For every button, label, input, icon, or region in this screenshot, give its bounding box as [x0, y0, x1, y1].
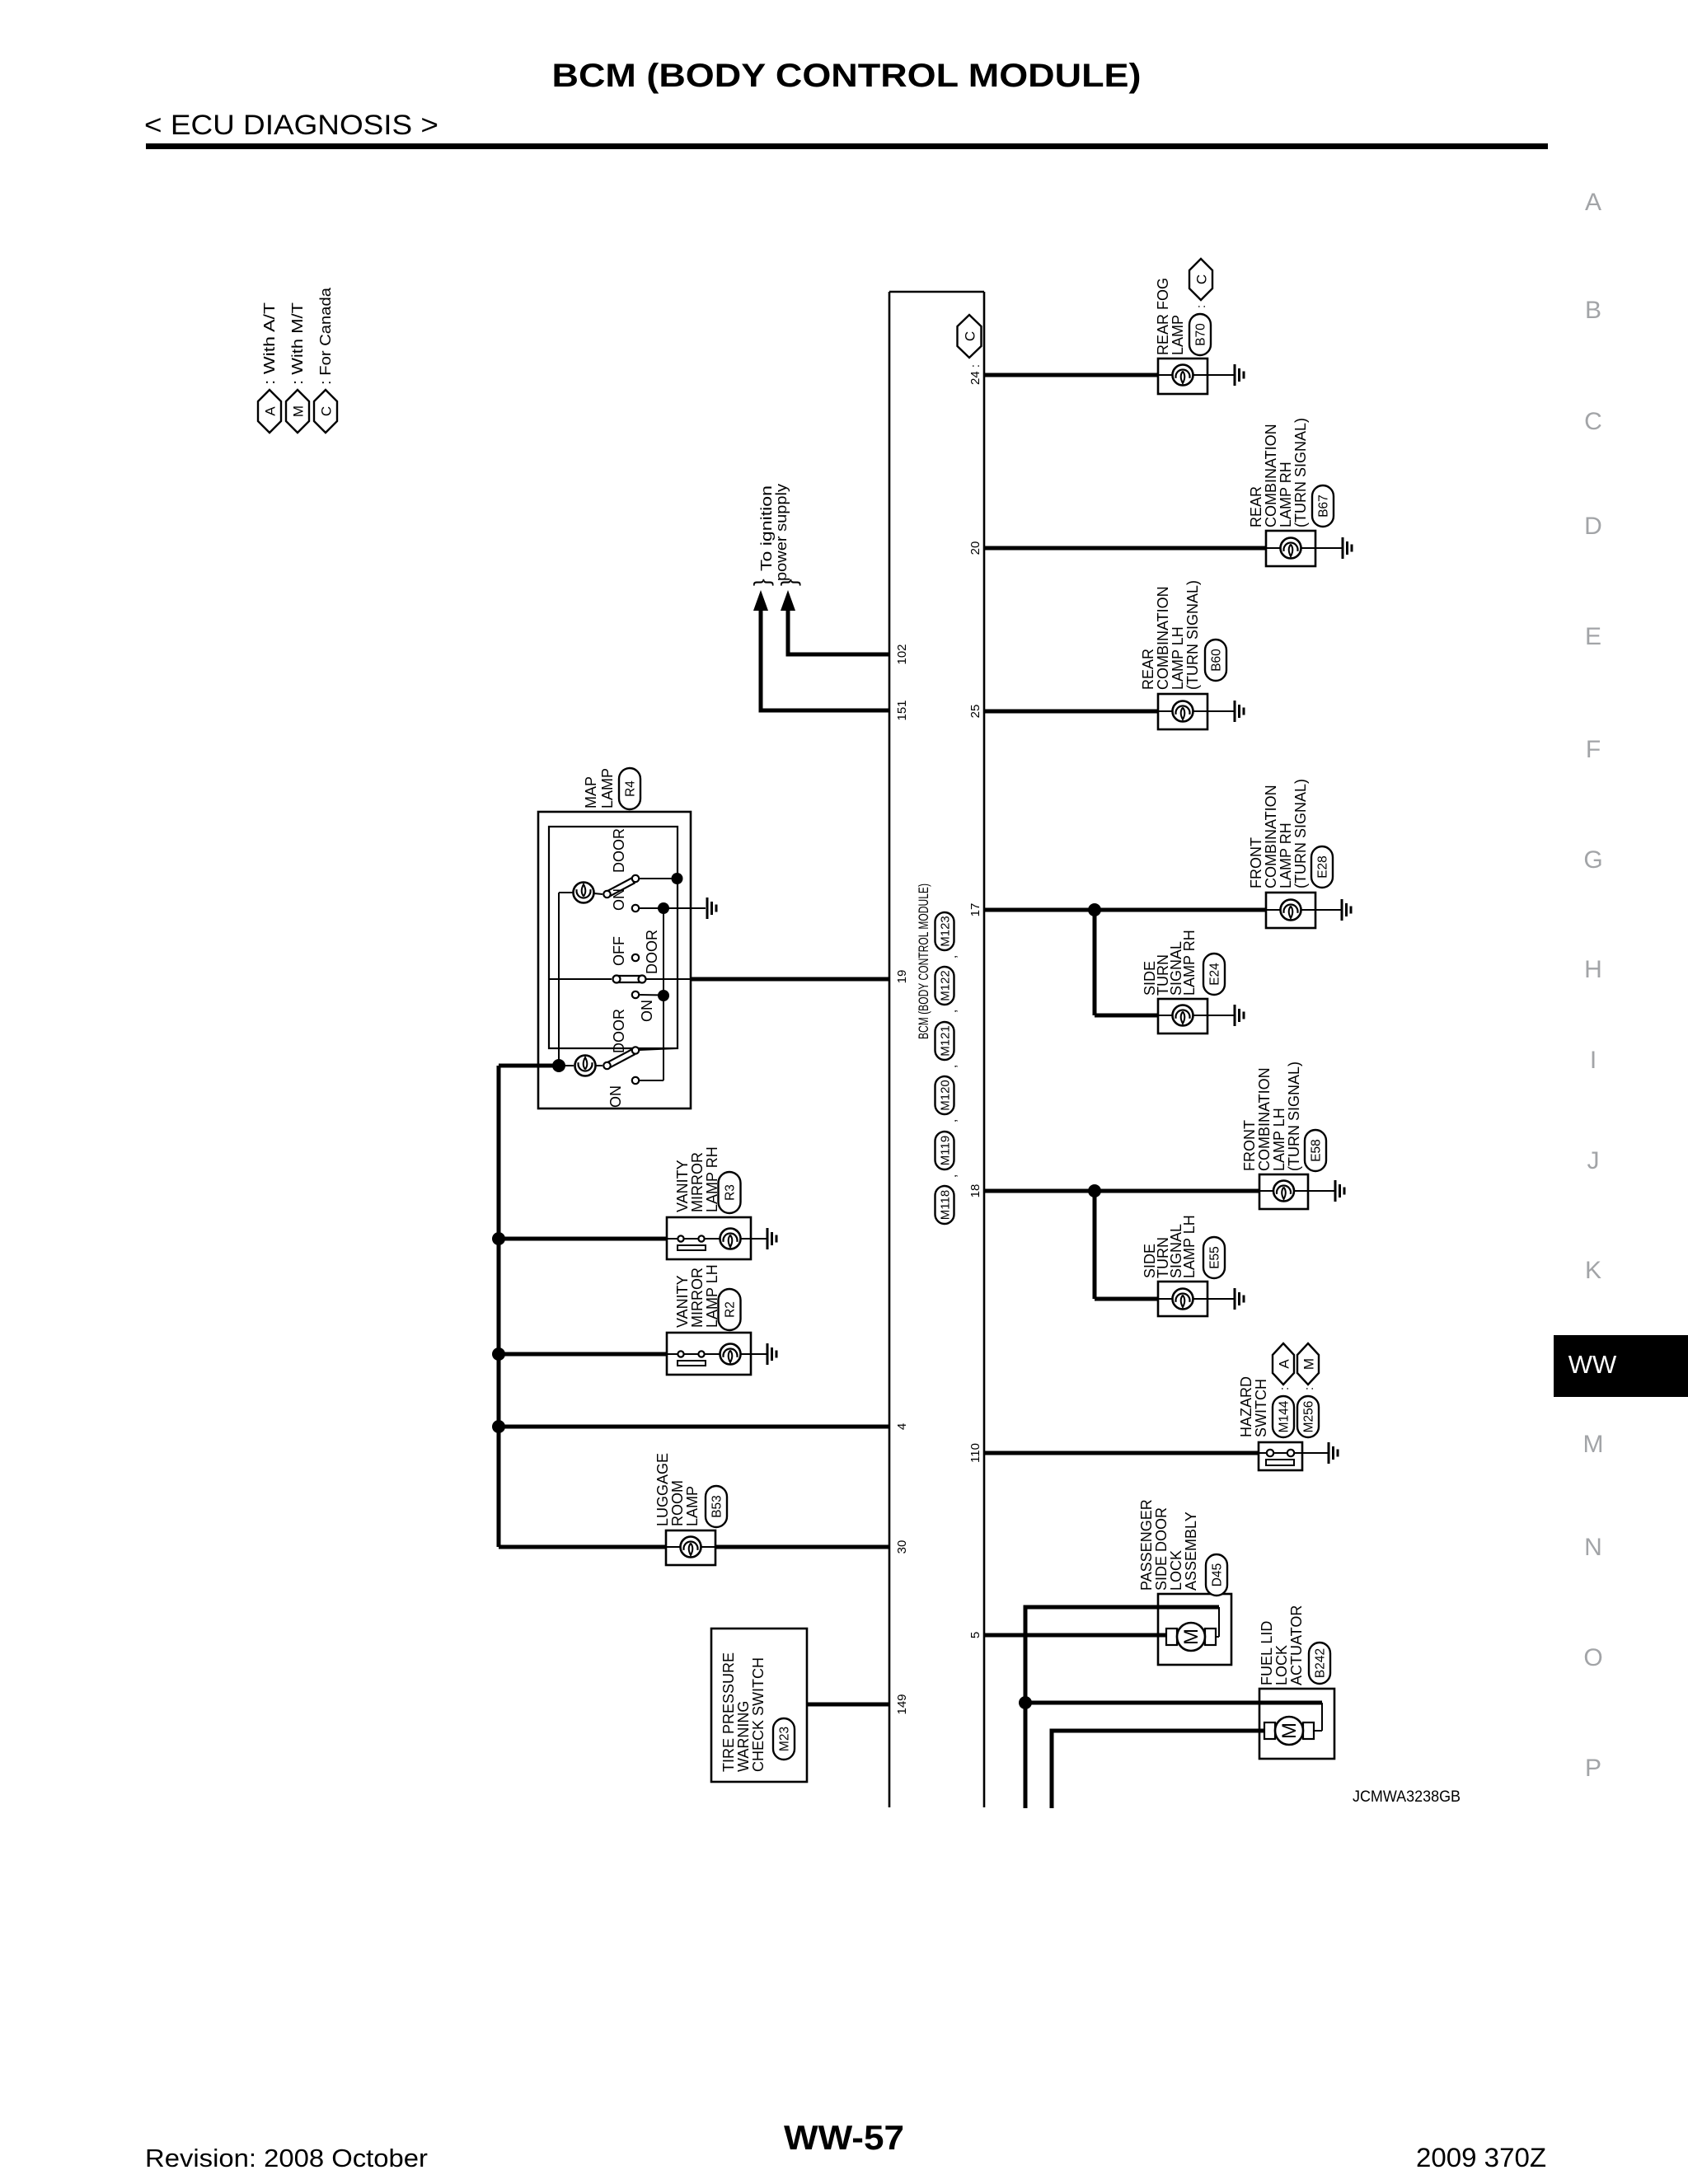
wire vanity RH to ground — [751, 1238, 767, 1240]
vanity mirror lamp RH R3 — [667, 1217, 751, 1259]
junction door loop (RH) — [672, 873, 683, 884]
svg-text:G: G — [1583, 846, 1602, 874]
svg-text:19: 19 — [895, 970, 909, 984]
wire side turn signal lamp RH to ground — [1207, 1015, 1235, 1016]
wire trunk to luggage room lamp and pin 30 — [499, 1545, 666, 1549]
svg-text:B53: B53 — [710, 1495, 724, 1518]
svg-text:4: 4 — [895, 1423, 909, 1430]
map lamp master switch — [632, 954, 639, 961]
ground map lamp — [706, 898, 709, 919]
svg-text:LAMP: LAMP — [684, 1486, 701, 1526]
svg-text:M: M — [1583, 1431, 1604, 1458]
hazard switch M144/M256 — [1259, 1442, 1302, 1470]
wire pin 20 to rear combination lamp RH — [984, 546, 1266, 551]
svg-text:M: M — [1180, 1629, 1203, 1645]
svg-text:30: 30 — [895, 1540, 909, 1554]
svg-text:E58: E58 — [1310, 1139, 1324, 1162]
svg-text:M120: M120 — [939, 1080, 953, 1111]
wire to vanity mirror lamp RH — [499, 1237, 667, 1241]
wire pin 19 map lamp switch to BCM — [691, 977, 889, 982]
contact ON (upper of LH) — [632, 991, 639, 998]
vanity mirror lamp LH R2 — [667, 1333, 751, 1375]
wire rear combination lamp LH to ground — [1207, 710, 1235, 712]
svg-text:Revision: 2008 October: Revision: 2008 October — [145, 2144, 428, 2172]
svg-text:OFF: OFF — [611, 936, 627, 966]
svg-text:2009 370Z: 2009 370Z — [1416, 2143, 1546, 2172]
rear combination lamp LH B60 — [1158, 694, 1207, 729]
wire M23 to pin 149 — [807, 1703, 889, 1707]
svg-text:MIRROR: MIRROR — [689, 1152, 706, 1212]
legend hexagon M : With M/T — [286, 390, 309, 433]
margin tab WW — [1554, 1335, 1688, 1397]
wire trunk vertical (door lock circuit) — [1024, 1605, 1028, 1809]
svg-text:24 :: 24 : — [968, 364, 982, 385]
svg-text:DOOR: DOOR — [611, 1009, 627, 1053]
svg-text:O: O — [1583, 1644, 1602, 1671]
svg-text:DOOR: DOOR — [611, 828, 627, 873]
svg-text:17: 17 — [968, 903, 982, 917]
wire front combination lamp RH to ground — [1315, 909, 1342, 911]
svg-text:,: , — [945, 1119, 959, 1122]
svg-text:H: H — [1584, 956, 1602, 983]
rear combination lamp RH B67 — [1266, 531, 1315, 566]
svg-text:VANITY: VANITY — [674, 1160, 691, 1212]
svg-text:ON: ON — [607, 1085, 624, 1108]
wire pin 24 to rear fog lamp — [984, 373, 1158, 377]
svg-text:N: N — [1584, 1534, 1602, 1561]
svg-text:18: 18 — [968, 1184, 982, 1198]
svg-text:LAMP RH: LAMP RH — [1278, 823, 1294, 888]
svg-text:MIRROR: MIRROR — [689, 1268, 706, 1328]
wire pin 17 to front combination lamp RH — [984, 908, 1266, 912]
svg-text:: With A/T: : With A/T — [261, 302, 278, 385]
svg-text:B67: B67 — [1317, 494, 1331, 518]
passenger side door lock assembly D45 — [1158, 1594, 1231, 1665]
svg-text:E28: E28 — [1316, 855, 1330, 879]
connector D45 — [1206, 1554, 1227, 1596]
svg-text:B: B — [1585, 297, 1601, 324]
connector M123 — [935, 912, 954, 950]
svg-text:ACTUATOR: ACTUATOR — [1288, 1605, 1305, 1685]
front combination lamp LH E58 — [1259, 1174, 1308, 1209]
front combination lamp RH E28 — [1266, 893, 1315, 928]
margin index letters — [1583, 189, 1604, 1782]
svg-text:D45: D45 — [1211, 1563, 1225, 1586]
luggage room lamp B53 — [666, 1530, 715, 1565]
BCM (BODY CONTROL MODULE) box — [889, 292, 891, 1807]
connector M23 — [773, 1718, 795, 1760]
svg-text:(TURN SIGNAL): (TURN SIGNAL) — [1286, 1062, 1302, 1171]
svg-text:COMBINATION: COMBINATION — [1263, 424, 1279, 527]
svg-text:M119: M119 — [939, 1136, 953, 1165]
connector M144 : A — [1273, 1396, 1294, 1437]
wire branch to side turn signal lamp RH — [1093, 910, 1097, 1015]
svg-text:COMBINATION: COMBINATION — [1155, 586, 1171, 690]
svg-text:To ignition: To ignition — [758, 485, 775, 571]
svg-text:LOCK: LOCK — [1273, 1645, 1290, 1685]
svg-text:LAMP RH: LAMP RH — [1181, 930, 1198, 996]
wire pin 110 to hazard switch — [984, 1451, 1259, 1455]
svg-text:JCMWA3238GB: JCMWA3238GB — [1353, 1788, 1461, 1806]
svg-text:ON: ON — [611, 888, 627, 911]
svg-text:M: M — [291, 405, 307, 417]
ground front combination lamp RH — [1341, 899, 1343, 921]
connector B60 — [1205, 640, 1226, 681]
svg-text:,: , — [945, 1174, 959, 1178]
wire trunk to pin 4 — [499, 1425, 889, 1429]
svg-text:C: C — [319, 406, 335, 416]
connector R2 — [719, 1289, 741, 1330]
wire hazard switch to ground — [1302, 1452, 1329, 1454]
svg-text:MAP: MAP — [583, 776, 599, 808]
wire trunk to map lamp — [499, 1064, 559, 1068]
svg-text:J: J — [1587, 1147, 1600, 1174]
svg-text:K: K — [1585, 1257, 1601, 1284]
rear fog lamp B70 — [1158, 359, 1207, 394]
svg-text:B70: B70 — [1194, 323, 1208, 346]
svg-text:B242: B242 — [1314, 1648, 1328, 1678]
wire front combination lamp LH to ground — [1308, 1190, 1335, 1192]
junction on door-signal (LH) — [658, 990, 669, 1001]
svg-text:151: 151 — [895, 700, 909, 720]
ground rear combination lamp RH — [1342, 537, 1344, 559]
svg-text:LAMP: LAMP — [599, 768, 616, 808]
connector M118 — [935, 1186, 954, 1224]
svg-text:(TURN SIGNAL): (TURN SIGNAL) — [1292, 418, 1309, 527]
svg-text:BCM (BODY CONTROL MODULE): BCM (BODY CONTROL MODULE) — [917, 883, 931, 1039]
svg-text:F: F — [1586, 736, 1601, 763]
svg-text:I: I — [1590, 1047, 1597, 1074]
ground side turn signal lamp LH — [1234, 1288, 1236, 1310]
svg-text::: : — [1302, 1387, 1316, 1390]
svg-text:(TURN SIGNAL): (TURN SIGNAL) — [1184, 580, 1201, 690]
wire side turn signal lamp LH to ground — [1207, 1298, 1235, 1300]
side turn signal lamp LH E55 — [1158, 1282, 1207, 1316]
svg-text:M: M — [1278, 1722, 1301, 1739]
wire branch to side turn signal lamp LH — [1093, 1191, 1097, 1299]
svg-text:PASSENGER: PASSENGER — [1138, 1499, 1155, 1591]
svg-text:HAZARD: HAZARD — [1238, 1376, 1254, 1437]
fuel lid lock actuator B242 — [1259, 1689, 1334, 1759]
svg-text:FUEL LID: FUEL LID — [1259, 1621, 1275, 1685]
svg-text:VANITY: VANITY — [674, 1275, 691, 1328]
svg-text:LAMP LH: LAMP LH — [1181, 1215, 1198, 1278]
contact ON (LH) — [632, 1077, 639, 1084]
connector E55 — [1203, 1237, 1225, 1278]
wire interior lamp trunk — [497, 1066, 501, 1547]
wire rear fog lamp to ground — [1207, 374, 1235, 376]
junction fuel lid branch — [1019, 1696, 1032, 1709]
svg-text:SWITCH: SWITCH — [1253, 1379, 1269, 1437]
svg-text:DOOR: DOOR — [644, 930, 660, 974]
connector E28 — [1311, 846, 1333, 888]
svg-text:: With M/T: : With M/T — [289, 302, 306, 385]
wire pin 5 to passenger side door lock — [984, 1633, 1168, 1638]
svg-text:,: , — [945, 955, 959, 958]
svg-text:20: 20 — [968, 541, 982, 555]
arrow to ignition power supply (151) — [753, 590, 768, 611]
wire pin 25 to rear combination lamp LH — [984, 710, 1158, 714]
svg-text:C: C — [963, 331, 978, 341]
svg-text:LAMP LH: LAMP LH — [1271, 1108, 1287, 1171]
svg-text:LUGGAGE: LUGGAGE — [654, 1453, 671, 1526]
connector E24 — [1203, 954, 1225, 995]
svg-text:< ECU DIAGNOSIS >: < ECU DIAGNOSIS > — [144, 110, 438, 141]
ground hazard switch — [1328, 1442, 1330, 1464]
svg-text:: For Canada: : For Canada — [317, 287, 334, 385]
wire pin 151 to ignition — [761, 709, 889, 713]
ground front combination lamp LH — [1334, 1180, 1337, 1202]
svg-text:CHECK SWITCH: CHECK SWITCH — [750, 1657, 767, 1772]
wire door lock bracket — [1025, 1605, 1219, 1610]
svg-text:M144: M144 — [1278, 1400, 1292, 1432]
connector M121 — [935, 1022, 954, 1060]
junction pin 17 branch — [1088, 903, 1101, 916]
svg-text:(TURN SIGNAL): (TURN SIGNAL) — [1292, 779, 1309, 888]
svg-text:M118: M118 — [939, 1190, 953, 1220]
junction ground wire (RH) — [658, 902, 669, 914]
svg-text:LAMP RH: LAMP RH — [1278, 462, 1294, 527]
svg-text:M23: M23 — [778, 1727, 792, 1751]
map lamp bulb RH — [558, 893, 560, 1066]
connector M119 — [935, 1132, 954, 1169]
connector R4 — [619, 768, 640, 809]
svg-text:M: M — [1301, 1358, 1317, 1370]
svg-text:}: } — [749, 579, 774, 586]
svg-text:B60: B60 — [1210, 649, 1224, 672]
svg-text:M121: M121 — [939, 1025, 953, 1057]
svg-text:SIDE DOOR: SIDE DOOR — [1153, 1507, 1170, 1591]
svg-text:LAMP LH: LAMP LH — [1170, 626, 1186, 690]
svg-text:,: , — [945, 1065, 959, 1068]
svg-text:M256: M256 — [1302, 1401, 1316, 1433]
wire rear combination lamp RH to ground — [1315, 547, 1343, 549]
svg-text:REAR FOG: REAR FOG — [1155, 278, 1171, 355]
junction vanity RH feed — [492, 1232, 505, 1245]
svg-text:ASSEMBLY: ASSEMBLY — [1183, 1511, 1199, 1591]
svg-text:WW-57: WW-57 — [784, 2118, 904, 2157]
ground rear combination lamp LH — [1234, 701, 1236, 722]
svg-text:FRONT: FRONT — [1248, 837, 1264, 888]
fuel lid motor — [1264, 1722, 1275, 1739]
ground rear fog lamp — [1234, 364, 1236, 386]
wire door-signal vertical — [663, 908, 664, 1080]
ground vanity mirror lamp RH — [767, 1228, 769, 1249]
svg-text:C: C — [1584, 408, 1602, 435]
svg-text:REAR: REAR — [1248, 486, 1264, 527]
svg-text:R4: R4 — [624, 780, 638, 797]
svg-text:power supply: power supply — [773, 484, 790, 581]
connector M122 — [935, 967, 954, 1005]
svg-text:102: 102 — [895, 644, 909, 664]
wire pin 102 to ignition — [788, 653, 889, 657]
svg-text:A: A — [263, 406, 279, 416]
connector B67 — [1312, 485, 1334, 527]
tire pressure warning check switch M23 — [711, 1629, 807, 1782]
junction pin 18 branch — [1088, 1184, 1101, 1197]
svg-text:M123: M123 — [939, 916, 953, 947]
connector B70 : C — [1189, 314, 1211, 355]
junction map lamp feed — [552, 1059, 565, 1072]
svg-text:M122: M122 — [939, 970, 953, 1001]
svg-text:WARNING: WARNING — [735, 1701, 752, 1772]
header rule — [146, 143, 1548, 149]
svg-text:ON: ON — [639, 1000, 655, 1022]
svg-text:,: , — [945, 1010, 959, 1013]
map lamp R4 outer box — [538, 812, 691, 1108]
junction pin 4 feed — [492, 1420, 505, 1433]
connector M120 — [935, 1076, 954, 1114]
svg-text:R3: R3 — [724, 1184, 738, 1201]
svg-text:COMBINATION: COMBINATION — [1263, 785, 1279, 888]
contact DOOR (RH) — [632, 875, 639, 882]
svg-text::: : — [1278, 1387, 1292, 1390]
svg-text:ROOM: ROOM — [669, 1480, 686, 1526]
ground vanity mirror lamp LH — [767, 1343, 769, 1365]
door lock motor — [1166, 1629, 1177, 1645]
wire fuel lid actuator return — [1052, 1729, 1266, 1733]
map lamp switch RH — [594, 893, 603, 894]
connector R3 — [719, 1172, 741, 1213]
side turn signal lamp RH E24 — [1158, 999, 1207, 1033]
svg-text:C: C — [1194, 274, 1210, 284]
junction vanity LH feed — [492, 1347, 505, 1361]
svg-text:149: 149 — [895, 1694, 909, 1714]
svg-text:FRONT: FRONT — [1241, 1120, 1258, 1171]
connector M256 : M — [1297, 1396, 1319, 1437]
wire vanity LH to ground — [751, 1353, 767, 1355]
ground side turn signal lamp RH — [1234, 1005, 1236, 1026]
wire to fuel lid actuator — [1025, 1701, 1322, 1705]
arrow to ignition power supply (102) — [781, 590, 795, 611]
svg-text:E55: E55 — [1208, 1246, 1222, 1269]
svg-text:A: A — [1585, 189, 1601, 216]
svg-text:LOCK: LOCK — [1168, 1550, 1184, 1591]
map lamp switch LH — [596, 1065, 603, 1066]
svg-text::: : — [1194, 305, 1208, 308]
legend hexagon C : For Canada — [314, 390, 337, 433]
svg-text:LAMP: LAMP — [1170, 315, 1186, 355]
connector E58 — [1305, 1130, 1326, 1171]
svg-text:110: 110 — [968, 1443, 982, 1463]
connector B53 — [706, 1486, 727, 1527]
svg-text:E24: E24 — [1208, 963, 1222, 986]
map lamp door-signal loop (inner box) — [549, 827, 678, 1048]
svg-text:WW: WW — [1568, 1350, 1617, 1379]
connector B242 — [1309, 1643, 1330, 1684]
legend hexagon A : With A/T — [258, 390, 281, 433]
svg-text:TIRE PRESSURE: TIRE PRESSURE — [720, 1652, 737, 1772]
wire pin 18 to front combination lamp LH — [984, 1189, 1259, 1193]
svg-text:A: A — [1277, 1359, 1292, 1369]
svg-text:COMBINATION: COMBINATION — [1256, 1067, 1273, 1171]
contact ON (RH) — [632, 905, 639, 912]
svg-text:5: 5 — [968, 1632, 982, 1638]
contact DOOR (LH) — [632, 1047, 639, 1053]
svg-text:P: P — [1585, 1755, 1601, 1782]
svg-text:R2: R2 — [724, 1301, 738, 1318]
svg-text:E: E — [1585, 623, 1601, 650]
wire to vanity mirror lamp LH — [499, 1352, 667, 1357]
svg-text:25: 25 — [968, 705, 982, 719]
svg-text:BCM (BODY CONTROL MODULE): BCM (BODY CONTROL MODULE) — [552, 58, 1142, 94]
map lamp bulb LH — [559, 1065, 574, 1066]
svg-text:D: D — [1584, 513, 1602, 540]
svg-text:REAR: REAR — [1140, 649, 1156, 690]
